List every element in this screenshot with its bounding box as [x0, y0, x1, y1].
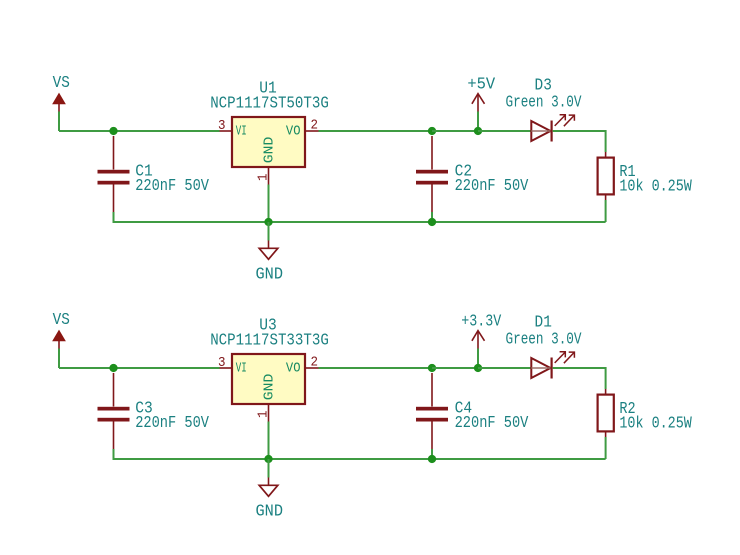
- svg-text:NCP1117ST50T3G: NCP1117ST50T3G: [210, 95, 329, 114]
- gnd rail wire: [114, 221, 606, 223]
- svg-text:VS: VS: [53, 74, 70, 93]
- wire corner down to resistor: [605, 367, 607, 389]
- power symbol +3.3V: [461, 313, 502, 349]
- power flag VS (net VS): [53, 74, 70, 112]
- svg-text:3: 3: [218, 118, 226, 134]
- regulator U3 NCP1117ST33T3G: [210, 316, 329, 421]
- wire pin1 to gnd rail: [268, 185, 270, 223]
- junction +5V node: [474, 127, 482, 135]
- svg-text:Green 3.0V: Green 3.0V: [506, 331, 583, 350]
- svg-text:VO: VO: [286, 361, 301, 377]
- wire C4 to gnd rail: [431, 449, 433, 460]
- wire resistor to gnd rail: [605, 200, 607, 222]
- gnd rail wire: [114, 458, 606, 460]
- wire pin1 to gnd rail: [268, 422, 270, 460]
- junction input node: [109, 127, 117, 135]
- junction gnd U pin: [264, 455, 272, 463]
- wire output node to power label: [432, 130, 478, 132]
- ground symbol GND: [256, 241, 284, 285]
- svg-text:VO: VO: [286, 124, 301, 140]
- power symbol +5V: [467, 76, 496, 112]
- LED D3 Green 3.0V: [506, 77, 583, 142]
- svg-text:3: 3: [218, 355, 226, 371]
- wire gnd rail to GND symbol: [268, 459, 270, 478]
- wire LED cathode to resistor: [553, 367, 606, 369]
- svg-text:10k 0.25W: 10k 0.25W: [619, 178, 692, 197]
- capacitor C3 220nF 50V: [98, 373, 210, 449]
- junction input node: [109, 364, 117, 372]
- resistor R2 10k 0.25W: [598, 389, 693, 437]
- svg-text:220nF 50V: 220nF 50V: [135, 414, 209, 433]
- svg-text:NCP1117ST33T3G: NCP1117ST33T3G: [210, 332, 329, 351]
- svg-text:220nF 50V: 220nF 50V: [455, 177, 529, 196]
- junction gnd C2: [428, 218, 436, 226]
- wire corner down to resistor: [605, 130, 607, 152]
- svg-text:1: 1: [256, 411, 272, 419]
- svg-text:+3.3V: +3.3V: [461, 313, 502, 332]
- power flag VS (net VS): [53, 311, 70, 349]
- wire C1 to gnd rail: [113, 212, 115, 223]
- svg-text:2: 2: [310, 118, 318, 134]
- junction output node C: [428, 127, 436, 135]
- ground symbol GND: [256, 478, 284, 522]
- regulator U1 NCP1117ST50T3G: [210, 79, 329, 184]
- svg-text:GND: GND: [261, 374, 277, 401]
- wire VS to VI pin: [59, 130, 220, 132]
- capacitor C2 220nF 50V: [416, 136, 529, 212]
- LED D1 Green 3.0V: [506, 314, 583, 379]
- wire output node to power label: [432, 367, 478, 369]
- wire +5V stem: [477, 112, 479, 132]
- wire power node to LED anode: [478, 130, 531, 132]
- junction +3.3V node: [474, 364, 482, 372]
- wire power node to LED anode: [478, 367, 531, 369]
- capacitor C1 220nF 50V: [98, 136, 210, 212]
- svg-text:VI: VI: [236, 361, 247, 377]
- svg-text:+5V: +5V: [467, 76, 496, 95]
- junction output node C: [428, 364, 436, 372]
- svg-text:10k 0.25W: 10k 0.25W: [619, 415, 692, 434]
- wire VS stem: [58, 112, 60, 132]
- svg-text:GND: GND: [256, 502, 284, 521]
- capacitor C4 220nF 50V: [416, 373, 529, 449]
- svg-text:GND: GND: [261, 137, 277, 164]
- junction gnd U pin: [264, 218, 272, 226]
- svg-text:Green 3.0V: Green 3.0V: [506, 94, 583, 113]
- svg-text:220nF 50V: 220nF 50V: [135, 177, 209, 196]
- wire LED cathode to resistor: [553, 130, 606, 132]
- svg-text:220nF 50V: 220nF 50V: [455, 414, 529, 433]
- wire C3 to gnd rail: [113, 449, 115, 460]
- wire gnd rail to GND symbol: [268, 222, 270, 241]
- junction gnd C4: [428, 455, 436, 463]
- svg-text:1: 1: [256, 174, 272, 182]
- resistor R1 10k 0.25W: [598, 152, 693, 200]
- wire +3.3V stem: [477, 349, 479, 369]
- wire VS to VI pin: [59, 367, 220, 369]
- wire VO to output node: [319, 367, 433, 369]
- wire C2 to gnd rail: [431, 212, 433, 223]
- wire VO to output node: [319, 130, 433, 132]
- wire VS stem: [58, 349, 60, 369]
- svg-text:VS: VS: [53, 311, 70, 330]
- svg-text:GND: GND: [256, 265, 284, 284]
- wire resistor to gnd rail: [605, 437, 607, 459]
- svg-text:2: 2: [310, 355, 318, 371]
- svg-text:VI: VI: [236, 124, 247, 140]
